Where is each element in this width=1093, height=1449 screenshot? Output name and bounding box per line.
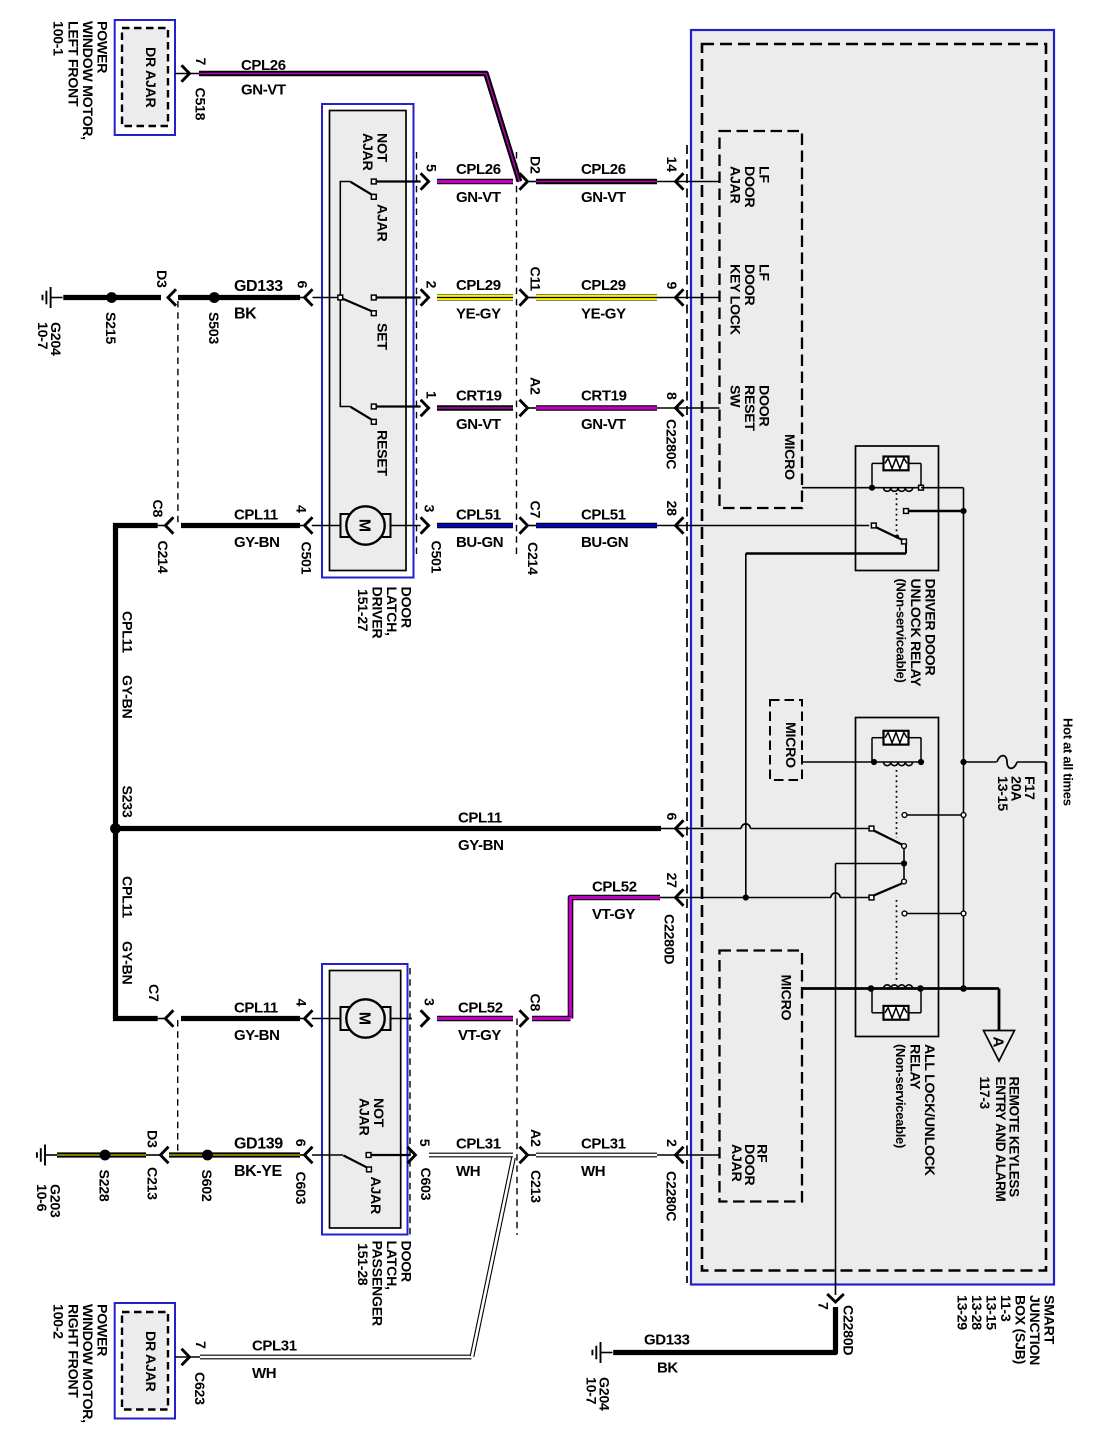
- svg-text:CPL11: CPL11: [234, 1000, 278, 1017]
- svg-text:A2: A2: [527, 1129, 543, 1147]
- svg-text:5: 5: [416, 1139, 432, 1147]
- svg-text:CPL11: CPL11: [119, 876, 135, 918]
- svg-text:151-28: 151-28: [354, 1243, 370, 1286]
- svg-text:28: 28: [663, 501, 679, 517]
- svg-text:D3: D3: [144, 1130, 160, 1148]
- svg-text:CRT19: CRT19: [581, 388, 627, 405]
- svg-text:C7: C7: [527, 501, 543, 519]
- svg-text:CPL26: CPL26: [241, 57, 286, 74]
- svg-text:CPL52: CPL52: [592, 879, 637, 896]
- svg-text:S215: S215: [102, 312, 118, 344]
- svg-text:C2280D: C2280D: [840, 1305, 856, 1355]
- svg-text:GY-BN: GY-BN: [458, 837, 504, 854]
- svg-text:S503: S503: [205, 312, 221, 344]
- svg-text:VT-GY: VT-GY: [592, 906, 635, 923]
- svg-text:AJAR: AJAR: [356, 1098, 372, 1135]
- svg-text:CPL31: CPL31: [252, 1338, 297, 1355]
- svg-text:GN-VT: GN-VT: [241, 82, 286, 99]
- svg-text:C8: C8: [527, 994, 543, 1012]
- svg-text:4: 4: [293, 999, 309, 1007]
- svg-text:GY-BN: GY-BN: [119, 941, 135, 984]
- svg-text:GD133: GD133: [234, 278, 283, 295]
- svg-text:7: 7: [815, 1302, 831, 1310]
- svg-text:2: 2: [663, 1139, 679, 1147]
- svg-text:C603: C603: [292, 1172, 308, 1205]
- svg-text:3: 3: [421, 998, 437, 1006]
- svg-text:2: 2: [423, 281, 439, 289]
- svg-text:GN-VT: GN-VT: [456, 416, 501, 433]
- svg-text:WINDOW MOTOR,: WINDOW MOTOR,: [79, 1304, 95, 1423]
- svg-text:DR AJAR: DR AJAR: [142, 47, 158, 107]
- svg-text:4: 4: [293, 505, 309, 513]
- svg-text:MICRO: MICRO: [778, 975, 794, 1021]
- svg-text:GY-BN: GY-BN: [119, 675, 135, 718]
- svg-text:C7: C7: [145, 984, 161, 1002]
- svg-text:WH: WH: [456, 1163, 480, 1180]
- svg-text:C518: C518: [192, 88, 208, 121]
- svg-text:RIGHT FRONT: RIGHT FRONT: [64, 1304, 80, 1398]
- svg-text:A: A: [990, 1037, 1007, 1048]
- svg-text:WH: WH: [581, 1163, 605, 1180]
- svg-text:A2: A2: [527, 377, 543, 395]
- svg-text:GY-BN: GY-BN: [234, 1027, 280, 1044]
- svg-text:6: 6: [292, 1139, 308, 1147]
- svg-text:117-3: 117-3: [977, 1077, 992, 1110]
- svg-text:GN-VT: GN-VT: [456, 189, 501, 206]
- svg-text:BK: BK: [234, 306, 257, 323]
- svg-text:100-1: 100-1: [50, 21, 66, 56]
- svg-text:CPL26: CPL26: [581, 161, 626, 178]
- svg-text:7: 7: [192, 1341, 208, 1349]
- svg-text:WH: WH: [252, 1365, 276, 1382]
- svg-text:CRT19: CRT19: [456, 388, 502, 405]
- svg-text:CPL31: CPL31: [456, 1136, 501, 1153]
- svg-text:13-15: 13-15: [994, 776, 1010, 811]
- svg-text:BU-GN: BU-GN: [456, 534, 503, 551]
- svg-text:CPL52: CPL52: [458, 1000, 503, 1017]
- svg-text:Hot at all times: Hot at all times: [1061, 718, 1076, 806]
- svg-text:CPL29: CPL29: [456, 277, 501, 294]
- svg-text:SET: SET: [374, 323, 390, 350]
- svg-text:6: 6: [294, 281, 310, 289]
- svg-text:AJAR: AJAR: [728, 1144, 744, 1181]
- svg-text:YE-GY: YE-GY: [581, 306, 626, 323]
- svg-text:C603: C603: [417, 1168, 433, 1201]
- svg-text:8: 8: [663, 392, 679, 400]
- svg-text:13-29: 13-29: [954, 1295, 970, 1330]
- svg-text:YE-GY: YE-GY: [456, 306, 501, 323]
- svg-text:MICRO: MICRO: [781, 434, 797, 480]
- svg-text:KEY LOCK: KEY LOCK: [727, 264, 743, 336]
- svg-text:C2280C: C2280C: [663, 419, 679, 469]
- svg-text:C213: C213: [527, 1170, 543, 1203]
- svg-text:10-6: 10-6: [33, 1184, 49, 1212]
- svg-text:POWER: POWER: [94, 1304, 110, 1356]
- svg-text:CPL31: CPL31: [581, 1136, 626, 1153]
- svg-text:C501: C501: [298, 542, 314, 575]
- svg-text:C214: C214: [524, 542, 540, 575]
- svg-text:D3: D3: [153, 270, 169, 288]
- svg-text:MICRO: MICRO: [782, 722, 798, 768]
- svg-text:(Non-serviceable): (Non-serviceable): [894, 579, 909, 683]
- svg-text:VT-GY: VT-GY: [458, 1027, 501, 1044]
- svg-text:SW: SW: [727, 385, 743, 408]
- svg-text:C2280C: C2280C: [663, 1171, 679, 1221]
- svg-text:100-2: 100-2: [50, 1304, 66, 1339]
- svg-text:BU-GN: BU-GN: [581, 534, 628, 551]
- svg-text:AJAR: AJAR: [367, 1177, 383, 1214]
- svg-text:GY-BN: GY-BN: [234, 534, 280, 551]
- svg-text:3: 3: [421, 505, 437, 513]
- svg-text:14: 14: [663, 157, 679, 173]
- svg-text:C501: C501: [428, 541, 444, 574]
- svg-text:(Non-serviceable): (Non-serviceable): [893, 1044, 908, 1148]
- svg-text:CPL26: CPL26: [456, 161, 501, 178]
- svg-text:M: M: [356, 519, 373, 532]
- svg-text:CPL51: CPL51: [581, 507, 626, 524]
- svg-text:C213: C213: [144, 1167, 160, 1200]
- svg-text:S228: S228: [96, 1170, 112, 1202]
- svg-text:5: 5: [423, 164, 439, 172]
- svg-text:LEFT FRONT: LEFT FRONT: [64, 21, 80, 107]
- svg-text:RESET: RESET: [374, 430, 390, 476]
- svg-text:D2: D2: [527, 156, 543, 174]
- svg-text:CPL29: CPL29: [581, 277, 626, 294]
- svg-text:CPL51: CPL51: [456, 507, 501, 524]
- svg-text:9: 9: [663, 282, 679, 290]
- svg-text:7: 7: [192, 58, 208, 66]
- svg-text:CPL11: CPL11: [119, 611, 135, 653]
- svg-text:GD133: GD133: [644, 1332, 690, 1349]
- svg-text:1: 1: [423, 391, 439, 399]
- svg-text:GN-VT: GN-VT: [581, 189, 626, 206]
- svg-text:CPL11: CPL11: [458, 810, 502, 827]
- svg-text:BK: BK: [657, 1360, 678, 1377]
- svg-text:S602: S602: [198, 1170, 214, 1202]
- svg-text:10-7: 10-7: [34, 322, 50, 350]
- svg-text:S233: S233: [119, 786, 135, 818]
- svg-text:AJAR: AJAR: [727, 166, 743, 203]
- svg-text:M: M: [356, 1012, 373, 1025]
- svg-text:WINDOW MOTOR,: WINDOW MOTOR,: [79, 21, 95, 140]
- svg-text:C623: C623: [191, 1372, 207, 1405]
- svg-text:27: 27: [663, 873, 679, 889]
- svg-text:C214: C214: [154, 541, 170, 574]
- svg-text:C2280D: C2280D: [661, 914, 677, 964]
- svg-text:CPL11: CPL11: [234, 507, 278, 524]
- svg-text:C11: C11: [527, 267, 543, 292]
- svg-text:GN-VT: GN-VT: [581, 416, 626, 433]
- svg-text:DR AJAR: DR AJAR: [142, 1331, 158, 1391]
- svg-text:BK-YE: BK-YE: [234, 1163, 283, 1180]
- svg-text:GD139: GD139: [234, 1136, 283, 1153]
- svg-text:151-27: 151-27: [354, 589, 370, 632]
- svg-text:10-7: 10-7: [583, 1377, 599, 1405]
- svg-text:POWER: POWER: [94, 21, 110, 73]
- svg-text:AJAR: AJAR: [359, 133, 375, 170]
- svg-text:AJAR: AJAR: [374, 204, 390, 241]
- svg-text:C8: C8: [149, 500, 165, 518]
- svg-text:ENTRY AND ALARM: ENTRY AND ALARM: [993, 1077, 1008, 1202]
- svg-text:6: 6: [663, 813, 679, 821]
